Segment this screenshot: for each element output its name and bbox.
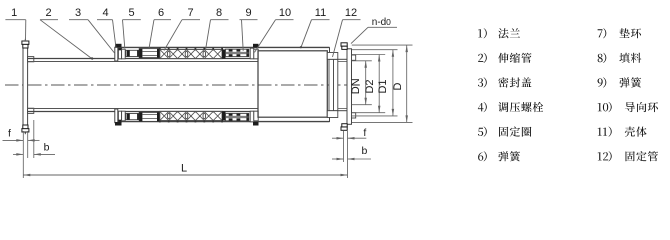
dimension b right <box>332 145 371 160</box>
dimension D1 <box>352 50 398 116</box>
label 1 leader <box>5 7 25 41</box>
pipe P2 fixed stub <box>338 59 347 110</box>
bolt B1 top-left flange <box>22 39 29 48</box>
legend item 5 固定圈 (fixing ring) <box>478 127 531 137</box>
legend item 4 调压螺栓 (adjusting bolt) <box>478 102 543 112</box>
extension lines left flange <box>23 120 34 178</box>
legend item 6 弹簧 (spring) <box>478 151 520 161</box>
svg-text:1: 1 <box>11 7 17 19</box>
dimension D <box>352 45 413 122</box>
label 6 leader <box>149 7 171 48</box>
svg-text:0: 0 <box>386 17 391 27</box>
label 5 leader <box>123 7 141 48</box>
leader tip dot 2 <box>91 57 93 59</box>
flange F-right hub bottom <box>352 113 356 118</box>
label 3 leader <box>69 7 115 53</box>
legend item 12 固定管 (fixed pipe) <box>598 151 658 161</box>
legend item 7 垫环 (washer ring) <box>598 28 642 38</box>
leader tip dot 11 <box>300 46 302 48</box>
dimension b left <box>13 142 55 156</box>
flange F-left hub top <box>28 57 34 62</box>
label 7 leader <box>164 7 200 50</box>
wire centerline <box>5 84 360 86</box>
svg-text:6: 6 <box>158 7 164 19</box>
label 12 leader <box>333 7 361 57</box>
flange F-right hub top <box>352 55 356 60</box>
svg-text:9: 9 <box>245 7 251 19</box>
legend item 1 法兰 (flange) <box>478 28 520 38</box>
label 9 leader <box>240 7 258 51</box>
label 4 leader <box>97 7 116 48</box>
svg-text:DN: DN <box>350 78 362 94</box>
svg-text:11: 11 <box>315 7 326 19</box>
flange F-left hub bottom <box>28 108 34 113</box>
svg-text:f: f <box>363 127 366 139</box>
dimension L <box>23 163 347 177</box>
legend item 10 导向环 (guide ring) <box>598 102 658 112</box>
label 10 leader <box>255 7 294 52</box>
svg-text:D1: D1 <box>377 79 389 93</box>
gland ring right of box <box>327 47 338 122</box>
flange F-right bar <box>347 49 352 125</box>
fixed-pipe box <box>258 51 327 117</box>
svg-text:8: 8 <box>216 7 222 19</box>
legend item 2 伸缩管 (telescopic pipe) <box>478 53 531 63</box>
dimension DN <box>350 61 372 105</box>
svg-text:D: D <box>392 82 404 90</box>
dimension f right <box>332 127 366 139</box>
bolt B3 top-right flange (n-d0) <box>341 43 347 50</box>
packing-gland assembly bottom (mirror) <box>115 109 259 126</box>
pipe P1 telescopic top wall <box>28 59 258 62</box>
svg-text:4: 4 <box>102 7 108 19</box>
svg-text:5: 5 <box>128 7 134 19</box>
svg-text:12: 12 <box>345 7 357 19</box>
svg-text:n-d: n-d <box>372 17 386 28</box>
label 11 leader <box>301 7 330 47</box>
svg-text:f: f <box>8 127 11 139</box>
legend item 8 填料 (packing) <box>598 53 642 63</box>
svg-text:10: 10 <box>279 7 291 19</box>
label n-d0 leader <box>351 17 397 44</box>
svg-text:3: 3 <box>75 7 81 19</box>
dimension D2 <box>352 55 385 113</box>
svg-text:L: L <box>181 163 187 175</box>
pipe P1 telescopic bottom wall <box>28 109 258 112</box>
flange F-left bar <box>23 48 28 125</box>
legend item 3 密封盖 (seal cover) <box>478 77 532 87</box>
svg-text:D2: D2 <box>364 79 376 93</box>
dimension f left <box>3 127 40 141</box>
svg-text:b: b <box>361 145 367 157</box>
bolt B2 bottom-left flange <box>22 125 29 134</box>
svg-text:7: 7 <box>187 7 193 19</box>
legend item 11 壳体 (shell) <box>598 127 647 137</box>
extension lines right flange <box>344 131 348 178</box>
label 2 leader <box>40 7 93 59</box>
bolt B4 bottom-right flange <box>341 124 347 131</box>
label 8 leader <box>206 7 229 50</box>
svg-text:b: b <box>44 142 50 154</box>
svg-text:2: 2 <box>46 7 52 19</box>
packing-gland assembly top (items 3-10) <box>115 44 259 61</box>
shell S bottom line <box>115 121 330 123</box>
shell S top line <box>115 46 330 48</box>
legend item 9 弹簧 (spring) <box>598 77 642 87</box>
